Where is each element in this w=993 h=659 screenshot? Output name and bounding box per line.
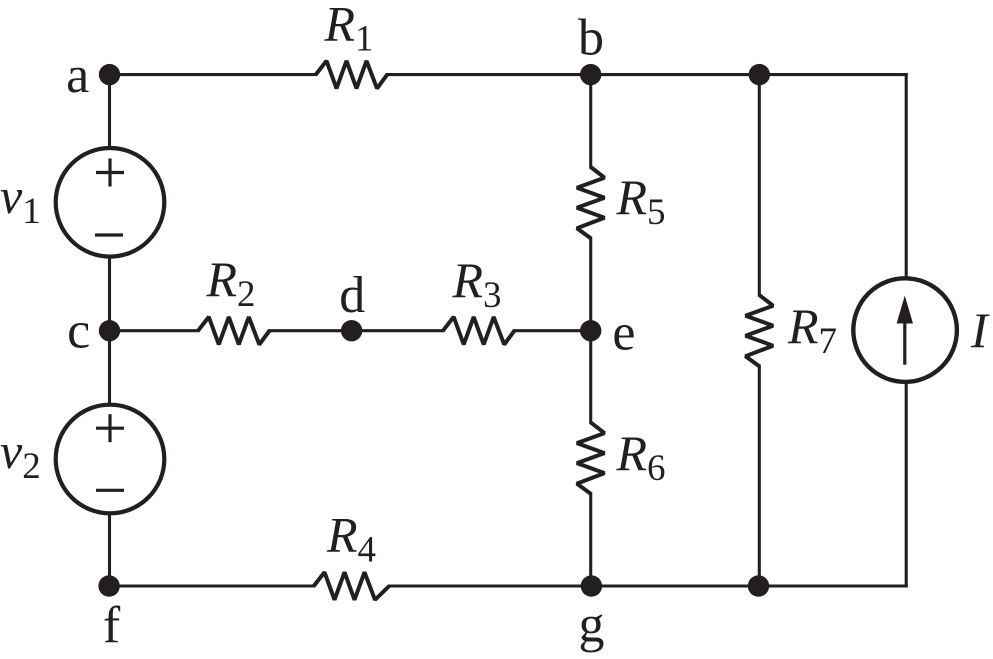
svg-text:a: a	[66, 47, 89, 104]
svg-text:d: d	[339, 267, 365, 324]
svg-text:I: I	[970, 302, 990, 358]
svg-text:v1: v1	[0, 168, 41, 232]
svg-text:b: b	[578, 10, 604, 67]
svg-text:g: g	[579, 597, 605, 654]
svg-text:c: c	[67, 302, 90, 359]
svg-text:R4: R4	[326, 507, 376, 571]
svg-text:R5: R5	[616, 169, 666, 233]
svg-text:f: f	[103, 597, 121, 654]
svg-text:R3: R3	[452, 252, 502, 316]
svg-text:R1: R1	[324, 0, 374, 60]
svg-text:v2: v2	[0, 423, 41, 487]
svg-text:R2: R2	[206, 251, 256, 315]
svg-text:e: e	[612, 305, 635, 362]
svg-text:R7: R7	[787, 298, 837, 362]
svg-text:R6: R6	[616, 425, 666, 489]
